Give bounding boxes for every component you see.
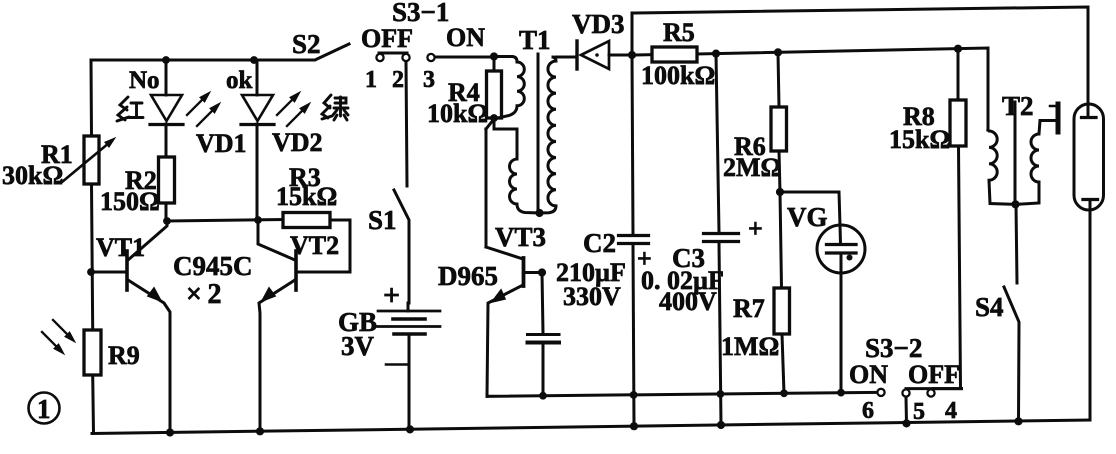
svg-text:VT2: VT2 [290,231,339,260]
svg-text:5: 5 [913,399,925,425]
node R6 top [774,48,782,56]
node VD1 top [162,56,170,64]
node T1 winding bottom junction [535,209,543,217]
T2 trigger electrode [1050,104,1058,132]
node R6 bottom [776,188,784,196]
svg-text:1MΩ: 1MΩ [721,332,779,361]
label battery minus [386,363,407,366]
switch S3-1 contact 3 [427,54,434,61]
transformer T1 primary winding [494,57,524,119]
transformer T1 feedback winding [510,159,540,213]
svg-text:R9: R9 [108,341,140,370]
svg-text:15kΩ: 15kΩ [889,125,950,154]
svg-text:S3−1: S3−1 [392,0,449,27]
battery GB [378,303,441,430]
transistor VT1 [91,221,170,433]
svg-text:VT3: VT3 [495,222,546,252]
transformer T2 secondary [1017,121,1056,205]
wire contact5 to bottom rail [905,397,909,423]
node VD2 anode [254,216,262,224]
node C3 bottom [717,421,725,429]
svg-text:+: + [383,279,400,312]
switch S1 blade [394,190,409,303]
svg-text:6: 6 [862,398,874,424]
svg-text:2MΩ: 2MΩ [723,153,781,182]
node VT3 base [538,268,546,276]
label hong (red) [117,97,143,121]
node VT1 emitter bottom [166,428,174,436]
svg-text:3V: 3V [341,331,375,361]
resistor R6 [771,52,787,192]
label lv (green) [322,95,348,120]
node VG bottom [837,389,845,397]
node VD2 top [250,56,258,64]
svg-text:S4: S4 [975,292,1004,322]
svg-text:S1: S1 [368,205,397,235]
R9 light arrows [42,320,75,354]
S3-1 bridge 1-2 [379,52,407,55]
capacitor C3 [704,54,739,425]
switch S3-2 contact 4 [927,389,934,396]
LED VD2 [241,60,274,220]
svg-text:VD2: VD2 [272,128,323,157]
neon lamp VG [780,192,865,393]
svg-text:R5: R5 [663,18,695,47]
node battery bottom [406,425,414,433]
resistor R8 [934,49,966,389]
svg-text:30kΩ: 30kΩ [2,161,63,190]
transistor VT2 [258,220,296,432]
node VT1 base [87,268,95,276]
switch S4 blade [1004,287,1019,421]
node R4 bottom [490,114,498,122]
resistor R5 [632,47,988,130]
photoresistor R9 [84,330,101,375]
resistor R2 [159,157,175,221]
bottom rail [92,420,1090,434]
wire S1 drop [406,62,407,187]
svg-text:VT1: VT1 [96,233,145,262]
transistor VT3 [486,119,541,396]
svg-text:VG: VG [787,202,828,232]
node R2 bottom [163,217,171,225]
transformer T1 core [537,54,540,212]
LED VD1 [150,60,183,157]
svg-text:VD1: VD1 [196,129,247,158]
svg-text:C2: C2 [583,228,616,258]
svg-text:1: 1 [37,394,51,424]
node R8 top [954,45,962,53]
node R4 top [490,52,498,60]
svg-text:T2: T2 [1002,91,1034,121]
svg-text:4: 4 [945,398,957,424]
svg-text:C945C: C945C [173,251,253,281]
capacitor VT3 base-emitter [528,273,560,396]
wire mid horizontal [167,220,283,222]
svg-text:OFF: OFF [361,24,413,53]
svg-text:R7: R7 [733,294,765,323]
resistor R7 [774,192,790,393]
VD1 light arrows [187,92,220,126]
transformer T2 core [1014,102,1017,204]
node C2 bottom [630,422,638,430]
wire T2 to S4 [1016,204,1017,283]
node cap bottom [539,392,547,400]
node VT2 emitter bottom [256,427,264,435]
node C3 top [712,50,720,58]
node contact5 bottom [902,419,910,427]
svg-text:T1: T1 [519,25,551,55]
wire top rail [632,7,1088,104]
svg-text:1: 1 [365,67,377,93]
svg-text:ok: ok [226,67,253,94]
resistor R4 [487,57,502,118]
node S4 bottom [1014,417,1022,425]
svg-text:400V: 400V [659,287,717,316]
wire top-left rail [91,59,314,62]
lamp tube [1074,104,1104,420]
svg-text:100kΩ: 100kΩ [641,61,715,90]
svg-text:S3−2: S3−2 [865,333,922,363]
resistor R3 [283,213,350,273]
svg-text:2: 2 [392,67,404,93]
S3-2 bridge 5-4 [906,387,962,390]
switch S2 blade [316,44,349,60]
svg-text:330V: 330V [563,282,621,311]
switch S3-2 contact 6 [877,389,884,396]
svg-text:150Ω: 150Ω [100,187,160,216]
capacitor C2 [619,55,649,426]
switch S3-2 contact 5 [902,389,909,396]
circled figure number 1 [29,393,60,424]
svg-text:VD3: VD3 [572,9,625,39]
switch S3-1 contact 1 [376,54,383,61]
svg-text:10kΩ: 10kΩ [427,99,488,128]
svg-text:OFF: OFF [908,360,960,389]
svg-text:ON: ON [849,360,888,389]
node C3 emitter rail [717,390,725,398]
svg-text:D965: D965 [438,261,498,291]
node C2 emitter rail [630,391,638,399]
node R7 bottom [780,389,788,397]
switch S3-1 contact 2 [402,54,409,61]
svg-text:× 2: × 2 [186,279,222,310]
wire contact3 to R4 node [435,56,494,59]
transformer T2 primary [988,130,1014,204]
svg-text:15kΩ: 15kΩ [276,182,337,211]
svg-text:3: 3 [423,67,435,93]
node T2 bottom junction [1011,200,1019,208]
wire secondary top to VD3 [556,56,575,59]
svg-text:S2: S2 [292,29,321,59]
T1 feedback winding link [494,118,517,159]
VD2 light arrows [277,92,310,126]
transformer T1 secondary winding [540,57,556,213]
svg-text:ON: ON [446,23,485,52]
wire left vertical [91,60,94,433]
svg-text:+: + [748,214,763,243]
svg-text:No: No [129,67,160,94]
wire emitter rail [487,392,877,396]
diode VD3 [577,41,632,69]
resistor R1 [62,136,115,184]
node VD3 R5 junction [628,51,636,59]
